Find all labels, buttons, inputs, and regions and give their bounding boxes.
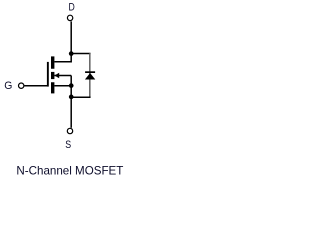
svg-text:D: D	[69, 2, 75, 14]
svg-text:G: G	[4, 80, 12, 92]
svg-text:N-Channel MOSFET: N-Channel MOSFET	[16, 164, 124, 178]
svg-text:S: S	[65, 139, 71, 151]
